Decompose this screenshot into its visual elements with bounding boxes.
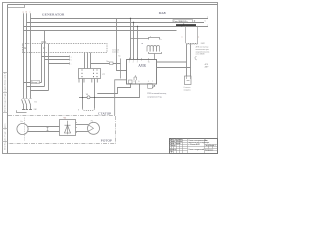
field tap wire <box>79 97 115 99</box>
title block text right <box>205 140 216 151</box>
KM2 contactor body <box>186 26 198 43</box>
wire sense tap c <box>49 63 70 65</box>
KM1 contact slash 2 <box>25 99 27 105</box>
svg-text:RT/4 внешний потенц.: RT/4 внешний потенц. <box>147 92 167 95</box>
svg-text:Инв.№ подл. Подп. и дата Вза: Инв.№ подл. Подп. и дата Взам. инв.№ <box>4 71 7 112</box>
tap c terminal tick <box>69 63 71 65</box>
exciter field winding U left leg <box>82 79 84 109</box>
svg-text:СТАТОР: СТАТОР <box>98 111 111 115</box>
rectifier right pin stubs <box>76 123 78 133</box>
terminal block contact dots <box>81 69 97 77</box>
junction dot L2 <box>133 22 134 23</box>
wire stator lead 3 <box>90 53 92 69</box>
svg-text:GENERATOR: GENERATOR <box>42 13 65 17</box>
svg-text:1: 1 <box>129 61 130 63</box>
CT mark x1 <box>24 47 26 49</box>
CT mark x2 <box>43 47 45 49</box>
terminal block XT <box>79 69 101 79</box>
svg-text:Утв.: Утв. <box>170 151 174 153</box>
mains label box <box>173 20 193 23</box>
svg-text:3: 3 <box>137 61 138 63</box>
TV1 secondary bracket <box>149 52 162 54</box>
KM1 contact slash 3 <box>29 99 31 105</box>
svg-text:a: a <box>71 57 72 59</box>
wire KM2 out 1 <box>186 44 188 76</box>
KM1 contact tick 2 <box>26 97 28 99</box>
AVR block U1 <box>127 60 157 85</box>
wire aux vertical <box>120 59 122 79</box>
svg-text:с блоком АVR: с блоком АVR <box>188 143 200 146</box>
wire sense tap b <box>45 59 70 61</box>
svg-text:Тм: Тм <box>148 61 150 63</box>
circuit breaker QF1 dashed enclosure <box>23 44 108 53</box>
wire CT tap 2 vertical <box>44 31 46 87</box>
potentiometer RT4 box <box>148 84 153 89</box>
machine boundary dash-dot <box>8 116 116 144</box>
exciter field winding U dashed arc <box>83 109 95 111</box>
wire AVR field B <box>115 84 140 98</box>
wire stator lead 1 <box>84 53 86 69</box>
svg-text:b: b <box>205 21 206 23</box>
wire join B horizontal <box>27 86 45 88</box>
tap a terminal tick <box>69 56 71 58</box>
svg-text:а: а <box>150 36 151 38</box>
bar left tick <box>182 23 184 26</box>
AVR pin labels top <box>129 61 150 63</box>
left margin divider y=141 <box>2 141 8 143</box>
junction dot field right <box>94 97 95 98</box>
tap b terminal tick <box>69 59 71 61</box>
wire exciter-rectifier bottom <box>28 131 60 133</box>
wire KM2 out 2 <box>190 44 192 76</box>
title block grid <box>170 139 218 154</box>
label box end mark <box>194 20 195 21</box>
KM1 contact slash 1 <box>22 99 24 105</box>
wire sense tap a <box>42 56 70 58</box>
field CT circle <box>87 96 90 99</box>
junction dot L3 <box>137 26 138 27</box>
bus line L1 <box>31 18 209 20</box>
AVR pin stubs top <box>130 58 149 61</box>
ATS aux block <box>185 76 192 85</box>
machine terminal bar 2 <box>26 109 29 111</box>
bus line L3 <box>24 26 209 28</box>
left margin divider y=128 <box>2 128 8 130</box>
machine terminal bar 1 <box>22 109 25 111</box>
KM2 bottom bumps <box>186 43 198 44</box>
wire exciter-rectifier top <box>28 126 60 128</box>
wire AVR input V <box>133 23 135 60</box>
wire TV primary feed <box>131 38 149 40</box>
link ticks between wires <box>47 127 49 132</box>
wire AVR field A <box>97 84 130 94</box>
wire AVR to ATS 2 <box>157 67 191 69</box>
mains breaker dark bar <box>176 24 196 26</box>
svg-text:7: 7 <box>152 81 153 83</box>
svg-text:Т.контр.: Т.контр. <box>170 145 177 147</box>
AVR inner tap symbol <box>134 75 137 84</box>
machine terminal bar 3 <box>29 109 32 111</box>
neutral bond wire <box>17 110 27 112</box>
svg-text:Копировал: Копировал <box>205 149 213 151</box>
svg-text:2: 2 <box>133 61 134 63</box>
svg-text:Выход 1: Выход 1 <box>32 82 39 84</box>
potentiometer wiper mark <box>152 85 155 88</box>
wire join A horizontal <box>24 82 42 84</box>
wire PMG to AVR <box>115 80 127 116</box>
stator block right tab <box>92 79 98 83</box>
wire phase C vertical <box>30 13 32 109</box>
svg-text:нагрузка: нагрузка <box>183 89 190 91</box>
svg-text:b: b <box>161 39 162 41</box>
wire rectifier-rotor bottom <box>76 131 89 133</box>
svg-text:1:1: 1:1 <box>213 145 215 147</box>
left margin divider y=92 <box>2 92 8 94</box>
svg-text:сопряжение Тяд: сопряжение Тяд <box>147 96 162 98</box>
phase terminal labels <box>23 11 31 13</box>
wire stator lead 2 <box>87 53 89 69</box>
ATS brace <box>195 56 197 60</box>
svg-text:x: x <box>182 37 183 39</box>
diode symbol <box>65 121 71 134</box>
wire exciter aux horizontal <box>91 63 121 65</box>
exciter dashed axis <box>24 118 26 141</box>
left margin rotated text <box>4 71 7 150</box>
svg-text:Пит: Пит <box>106 61 109 63</box>
svg-text:Fв: Fв <box>91 120 93 122</box>
svg-text:выключ.: выключ. <box>112 51 119 53</box>
transformer TV1 primary bar <box>149 38 160 40</box>
top-left stamp box <box>8 5 25 8</box>
output label box <box>31 81 40 84</box>
svg-text:Схема соединений: Схема соединений <box>188 148 204 151</box>
exciter armature circle <box>17 123 28 134</box>
ATS aux inner <box>187 76 191 81</box>
fuse below AVR <box>129 80 133 84</box>
svg-text:x: x <box>198 37 199 39</box>
svg-text:Fs: Fs <box>21 121 23 123</box>
svg-text:c: c <box>30 11 31 13</box>
AVR annotation text <box>147 92 167 99</box>
bus line N <box>24 30 177 32</box>
left margin divider y=112 <box>2 112 8 114</box>
transformer TV1 coil <box>147 46 160 52</box>
rotor winding marks <box>88 125 94 132</box>
svg-text:К: К <box>78 110 79 112</box>
TV1 secondary tap wire <box>154 54 156 60</box>
ATS annotation text block <box>196 46 211 56</box>
junction dot field left <box>82 97 83 98</box>
title block text left <box>170 138 183 153</box>
svg-text:МАВ: МАВ <box>159 11 166 15</box>
rotating rectifier box VD <box>60 120 76 136</box>
stator block left tab <box>79 79 84 83</box>
fuse FU on aux wire <box>110 62 114 65</box>
wire AVR input W <box>137 27 139 60</box>
wire AVR to ATS 1 <box>157 61 187 63</box>
bus line L2 <box>27 22 205 24</box>
title block text middle <box>188 140 209 151</box>
sense annotation text <box>112 48 119 53</box>
wire phase A vertical <box>23 13 25 109</box>
junction dot L1 <box>130 18 131 19</box>
sheet outer border <box>2 2 218 154</box>
KM1 contact tick 3 <box>30 97 32 99</box>
svg-text:6: 6 <box>148 81 149 83</box>
ATS aux text <box>183 87 190 91</box>
wire CT tap 3 vertical <box>48 44 50 91</box>
wire join C horizontal <box>31 90 49 92</box>
wire rectifier-rotor top <box>76 124 89 126</box>
svg-text:а: а <box>207 17 208 19</box>
exciter field winding U right leg <box>94 79 96 109</box>
wire CT tap 1 vertical <box>41 44 43 83</box>
svg-text:РОТОР: РОТОР <box>101 138 112 142</box>
drawing frame <box>8 5 218 154</box>
svg-text:АVR: АVR <box>138 64 146 68</box>
svg-text:сети 380В: сети 380В <box>196 54 206 56</box>
svg-text:Инв.№ дубл. Подп. и дата: Инв.№ дубл. Подп. и дата <box>4 123 7 150</box>
svg-text:Сеть 380В 50Гц: Сеть 380В 50Гц <box>174 21 189 23</box>
wire phase B vertical <box>26 13 28 109</box>
AVR pin labels bottom <box>134 81 153 83</box>
KM1 contact tick 1 <box>23 97 25 99</box>
tap end labels <box>71 57 72 66</box>
rotor field circle <box>88 122 100 134</box>
left margin divider y=72 <box>2 72 8 74</box>
wire AVR input U <box>130 19 132 60</box>
wire AVR sense from L1 <box>117 19 127 71</box>
title block outer <box>170 139 218 154</box>
ATS small labels <box>205 63 210 69</box>
svg-text:b: b <box>71 60 72 62</box>
